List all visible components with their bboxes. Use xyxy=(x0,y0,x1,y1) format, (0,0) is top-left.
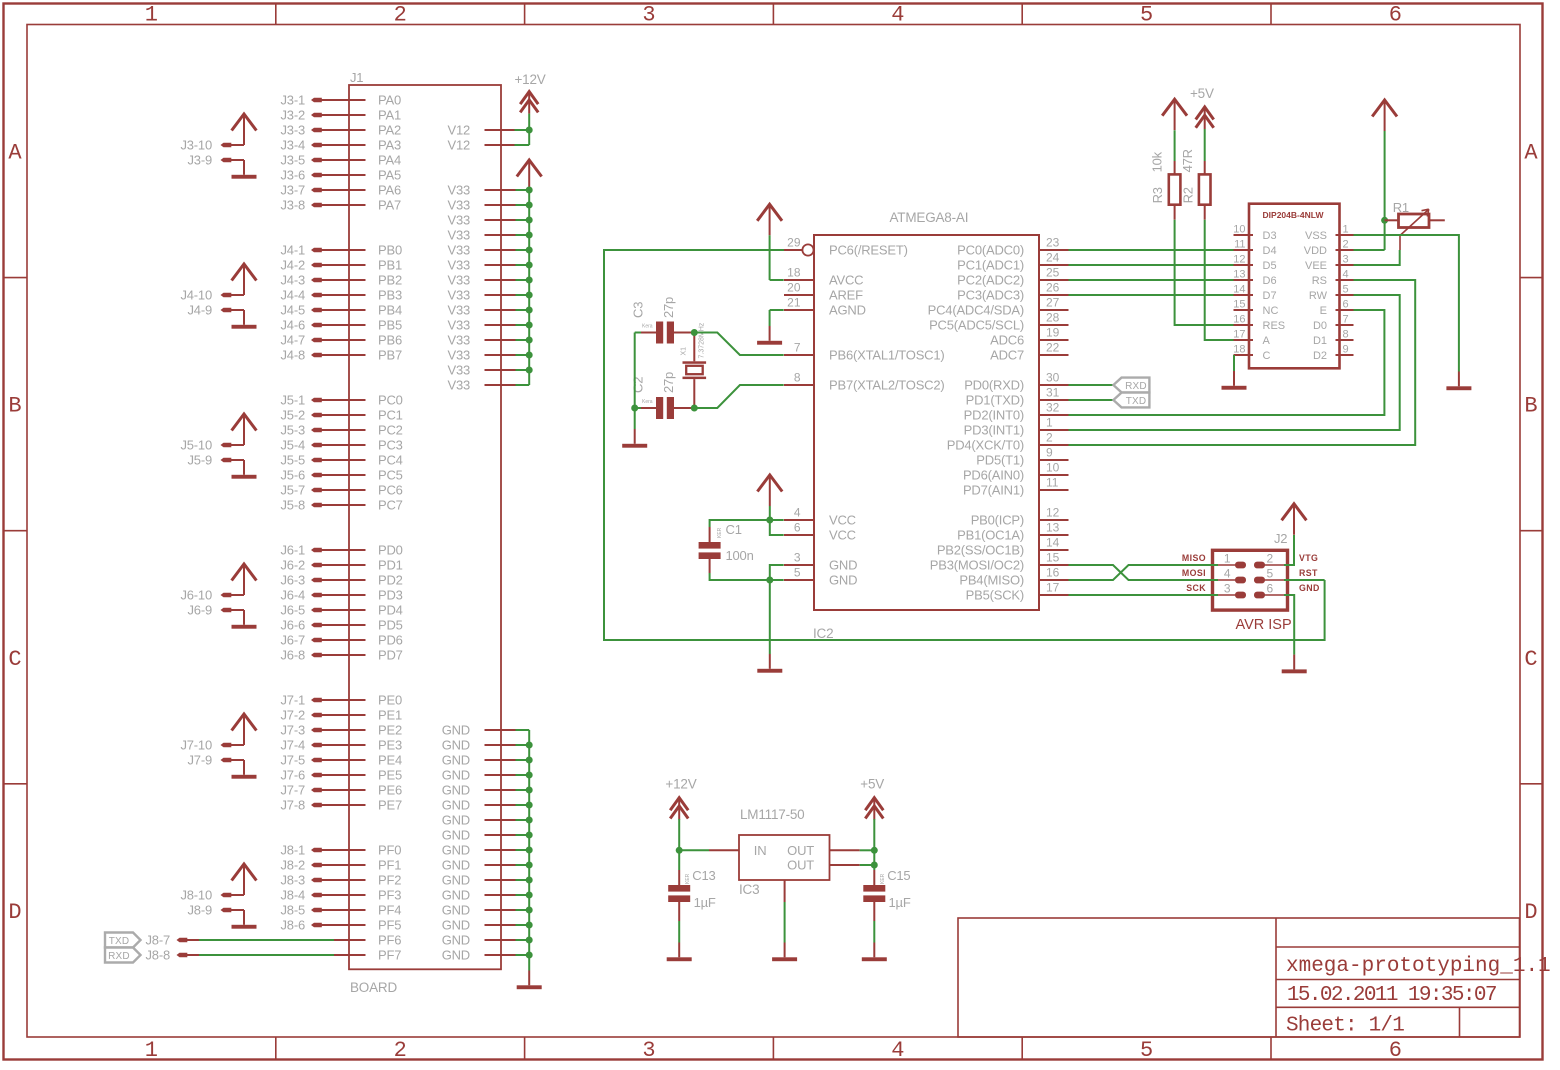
ground symbol at J6 xyxy=(243,610,245,625)
junction V12 xyxy=(526,127,533,134)
svg-text:GND: GND xyxy=(829,558,857,573)
svg-text:VCC: VCC xyxy=(829,513,856,528)
wire +12V to IN xyxy=(678,819,680,850)
svg-text:GND: GND xyxy=(442,903,470,918)
svg-text:PB3(MOSI/OC2): PB3(MOSI/OC2) xyxy=(930,558,1024,573)
svg-text:4: 4 xyxy=(794,506,801,520)
power symbol V33 arrow at J1 xyxy=(517,160,542,177)
wire VSS to ground xyxy=(1354,235,1459,372)
svg-text:GND: GND xyxy=(442,768,470,783)
svg-text:PA5: PA5 xyxy=(378,168,401,183)
wire XTAL1 net xyxy=(694,333,783,356)
IC3 pins xyxy=(709,849,740,851)
wire R2 to A xyxy=(1205,220,1234,340)
svg-text:AGND: AGND xyxy=(829,303,866,318)
svg-text:V33: V33 xyxy=(447,333,470,348)
connector J1 (BOARD) box xyxy=(349,85,501,969)
svg-text:10k: 10k xyxy=(1150,151,1165,172)
svg-text:J5-10: J5-10 xyxy=(180,438,212,453)
svg-text:D3: D3 xyxy=(1263,230,1277,242)
svg-text:GND: GND xyxy=(442,933,470,948)
crystal X1 7.3728MHz xyxy=(683,361,707,364)
svg-text:V33: V33 xyxy=(447,348,470,363)
svg-text:GND: GND xyxy=(442,888,470,903)
svg-text:J3-5: J3-5 xyxy=(281,153,306,168)
svg-text:4: 4 xyxy=(891,3,904,28)
svg-text:IC3: IC3 xyxy=(739,882,759,897)
power symbol V33 arrow at J5 xyxy=(232,414,257,431)
svg-text:47R: 47R xyxy=(1180,149,1195,172)
ground symbol at J7 xyxy=(243,760,245,775)
svg-text:PF7: PF7 xyxy=(378,948,401,963)
junctions V33 xyxy=(526,187,533,194)
svg-text:Kera: Kera xyxy=(642,324,653,330)
svg-text:LM1117-50: LM1117-50 xyxy=(740,807,805,822)
junction crystal bottom xyxy=(691,405,698,412)
wire GND net at C1 xyxy=(710,573,770,580)
svg-text:D4: D4 xyxy=(1263,245,1277,257)
svg-text:5: 5 xyxy=(1343,284,1349,296)
svg-text:J8-4: J8-4 xyxy=(281,888,306,903)
svg-text:1: 1 xyxy=(1224,552,1231,566)
capacitor C1 100n xyxy=(699,542,721,549)
svg-text:D7: D7 xyxy=(1263,290,1277,302)
capacitor C2 27p xyxy=(656,397,663,419)
svg-text:D1: D1 xyxy=(1313,335,1327,347)
wire SCK net xyxy=(1069,594,1219,596)
svg-text:AVCC: AVCC xyxy=(829,273,863,288)
svg-text:J8-2: J8-2 xyxy=(281,858,306,873)
svg-text:V33: V33 xyxy=(447,363,470,378)
junction R1 tap xyxy=(1381,217,1388,224)
svg-text:29: 29 xyxy=(787,236,801,250)
svg-text:32: 32 xyxy=(1046,401,1060,415)
svg-text:5: 5 xyxy=(1140,3,1153,28)
svg-text:PB7: PB7 xyxy=(378,348,402,363)
svg-text:2: 2 xyxy=(1343,239,1349,251)
svg-text:100n: 100n xyxy=(726,548,754,563)
svg-text:PA2: PA2 xyxy=(378,123,401,138)
svg-text:GND: GND xyxy=(442,858,470,873)
wire J2 GND net xyxy=(1284,595,1294,655)
svg-text:AVR ISP: AVR ISP xyxy=(1236,617,1292,633)
svg-text:16: 16 xyxy=(1046,566,1060,580)
svg-text:31: 31 xyxy=(1046,386,1060,400)
svg-text:J7-7: J7-7 xyxy=(281,783,306,798)
svg-text:2: 2 xyxy=(394,3,407,28)
svg-text:PE6: PE6 xyxy=(378,783,402,798)
svg-text:X1: X1 xyxy=(681,347,688,356)
svg-text:D: D xyxy=(8,900,21,925)
svg-text:J5-6: J5-6 xyxy=(281,468,306,483)
svg-text:J4-10: J4-10 xyxy=(180,288,212,303)
svg-text:PD6(AIN0): PD6(AIN0) xyxy=(963,468,1024,483)
svg-text:BOARD: BOARD xyxy=(350,980,397,995)
svg-text:V33: V33 xyxy=(447,258,470,273)
svg-text:PA6: PA6 xyxy=(378,183,401,198)
svg-text:PF1: PF1 xyxy=(378,858,401,873)
svg-text:PB3: PB3 xyxy=(378,288,402,303)
svg-text:1: 1 xyxy=(145,1038,158,1063)
J2 pads and numbers xyxy=(1216,564,1236,566)
svg-text:15: 15 xyxy=(1233,299,1245,311)
svg-text:Kera: Kera xyxy=(642,399,653,405)
svg-text:PF6: PF6 xyxy=(378,933,401,948)
svg-text:J6-7: J6-7 xyxy=(281,633,306,648)
wire MOSI net with crossover xyxy=(1069,565,1219,580)
net flag TXD xyxy=(1113,393,1149,408)
svg-text:PC7: PC7 xyxy=(378,498,403,513)
svg-text:VEE: VEE xyxy=(1305,260,1327,272)
svg-text:J4-6: J4-6 xyxy=(281,318,306,333)
svg-text:J4-1: J4-1 xyxy=(281,243,306,258)
svg-text:J7-2: J7-2 xyxy=(281,708,306,723)
ground symbol below J1 xyxy=(528,971,530,986)
svg-text:R3: R3 xyxy=(1150,187,1165,203)
svg-text:KER: KER xyxy=(880,873,886,884)
power symbol V33 arrow at J3 xyxy=(232,114,257,131)
ground symbol C15 xyxy=(873,943,875,958)
svg-text:GND: GND xyxy=(442,873,470,888)
wire IC3 GND pin to ground xyxy=(784,902,786,943)
svg-text:C2: C2 xyxy=(631,377,646,393)
svg-text:PD4(XCK/T0): PD4(XCK/T0) xyxy=(947,438,1024,453)
svg-text:J6-1: J6-1 xyxy=(281,543,306,558)
svg-text:6: 6 xyxy=(1389,1038,1402,1063)
svg-text:J5-4: J5-4 xyxy=(281,438,306,453)
svg-text:PD7: PD7 xyxy=(378,648,403,663)
svg-text:PD4: PD4 xyxy=(378,603,403,618)
svg-text:J1: J1 xyxy=(350,70,363,85)
svg-text:17: 17 xyxy=(1233,329,1245,341)
svg-text:C13: C13 xyxy=(692,868,715,883)
svg-text:VSS: VSS xyxy=(1305,230,1327,242)
svg-text:D: D xyxy=(1524,900,1537,925)
wire PD3 to RW xyxy=(1069,295,1400,430)
svg-text:C15: C15 xyxy=(887,868,910,883)
junction crystal top xyxy=(691,329,698,336)
svg-text:J6-8: J6-8 xyxy=(281,648,306,663)
svg-text:7: 7 xyxy=(1343,314,1349,326)
svg-text:V33: V33 xyxy=(447,378,470,393)
svg-text:+5V: +5V xyxy=(1190,86,1214,101)
svg-text:+12V: +12V xyxy=(665,777,696,792)
svg-text:B: B xyxy=(1524,394,1537,419)
svg-text:11: 11 xyxy=(1234,239,1245,251)
svg-text:3: 3 xyxy=(794,551,801,565)
svg-text:J7-10: J7-10 xyxy=(180,738,212,753)
LCD module U-LCD DIP204B-4NLW box xyxy=(1249,204,1340,369)
svg-text:22: 22 xyxy=(1046,341,1060,355)
ground symbol at J3 xyxy=(243,160,245,175)
svg-text:25: 25 xyxy=(1046,266,1060,280)
svg-text:ADC7: ADC7 xyxy=(990,348,1024,363)
svg-text:ATMEGA8-AI: ATMEGA8-AI xyxy=(890,210,969,225)
svg-text:VCC: VCC xyxy=(829,528,856,543)
svg-text:PB5: PB5 xyxy=(378,318,402,333)
svg-text:V33: V33 xyxy=(447,318,470,333)
svg-text:PB6: PB6 xyxy=(378,333,402,348)
svg-text:PB2: PB2 xyxy=(378,273,402,288)
svg-text:PD6: PD6 xyxy=(378,633,403,648)
svg-text:5: 5 xyxy=(1140,1038,1153,1063)
svg-text:18: 18 xyxy=(787,266,801,280)
svg-text:J4-5: J4-5 xyxy=(281,303,306,318)
svg-text:PB0: PB0 xyxy=(378,243,402,258)
wire AGND net xyxy=(770,309,784,311)
svg-text:PE4: PE4 xyxy=(378,753,402,768)
wire RESET net xyxy=(604,250,1325,640)
svg-text:13: 13 xyxy=(1233,269,1245,281)
LCD right pins xyxy=(1336,234,1354,236)
svg-text:J7-1: J7-1 xyxy=(281,693,306,708)
svg-text:B: B xyxy=(8,394,21,419)
junction OUT2 xyxy=(871,862,878,869)
svg-text:15.02.2011 19:35:07: 15.02.2011 19:35:07 xyxy=(1287,984,1496,1007)
resistor R3 10k xyxy=(1174,130,1176,161)
svg-text:PE5: PE5 xyxy=(378,768,402,783)
wire GND net at J1 xyxy=(528,730,530,971)
svg-text:D6: D6 xyxy=(1263,275,1277,287)
J1 right pins V12 V33 GND xyxy=(485,129,516,131)
svg-text:21: 21 xyxy=(787,296,801,310)
svg-text:PD0(RXD): PD0(RXD) xyxy=(964,378,1024,393)
svg-text:PB7(XTAL2/TOSC2): PB7(XTAL2/TOSC2) xyxy=(829,378,945,393)
power symbol V33 arrow at J8 xyxy=(232,864,257,881)
IC IC3 LM1117-50 box xyxy=(739,835,830,880)
svg-text:2: 2 xyxy=(1046,431,1053,445)
IC IC2 ATMEGA8-AI box xyxy=(814,235,1039,610)
svg-text:PD3: PD3 xyxy=(378,588,403,603)
svg-text:IN: IN xyxy=(754,843,767,858)
svg-text:PC2: PC2 xyxy=(378,423,403,438)
svg-text:J4-7: J4-7 xyxy=(281,333,306,348)
svg-text:PB1(OC1A): PB1(OC1A) xyxy=(957,528,1024,543)
svg-text:PD1: PD1 xyxy=(378,558,403,573)
ground symbol at J5 xyxy=(243,460,245,475)
svg-text:J5-8: J5-8 xyxy=(281,498,306,513)
resistor R2 47R xyxy=(1204,129,1206,161)
svg-text:10: 10 xyxy=(1233,224,1245,236)
svg-text:J6-2: J6-2 xyxy=(281,558,306,573)
svg-text:PC1: PC1 xyxy=(378,408,403,423)
svg-text:J3-10: J3-10 xyxy=(180,138,212,153)
svg-text:GND: GND xyxy=(442,828,470,843)
svg-text:OUT: OUT xyxy=(787,858,814,873)
svg-text:GND: GND xyxy=(442,753,470,768)
svg-text:J5-9: J5-9 xyxy=(188,453,213,468)
svg-text:2: 2 xyxy=(394,1038,407,1063)
svg-text:V33: V33 xyxy=(447,183,470,198)
wire TXD net to PF6 xyxy=(199,939,334,941)
svg-text:PC0: PC0 xyxy=(378,393,403,408)
svg-text:4: 4 xyxy=(1343,269,1349,281)
junctions GND column xyxy=(526,742,533,749)
svg-text:4: 4 xyxy=(1224,567,1231,581)
power symbol VCC arrow above R3 xyxy=(1162,99,1187,116)
svg-text:J7-6: J7-6 xyxy=(281,768,306,783)
connector J2 AVR ISP box xyxy=(1213,550,1288,610)
svg-text:PC3(ADC3): PC3(ADC3) xyxy=(957,288,1024,303)
wire PC3 to D7 xyxy=(1069,294,1234,296)
svg-text:PE3: PE3 xyxy=(378,738,402,753)
svg-text:J3-3: J3-3 xyxy=(281,123,306,138)
ground symbol J2 xyxy=(1293,655,1295,670)
svg-text:PE0: PE0 xyxy=(378,693,402,708)
svg-text:V12: V12 xyxy=(447,138,470,153)
svg-text:9: 9 xyxy=(1046,446,1053,460)
svg-text:J3-2: J3-2 xyxy=(281,108,306,123)
svg-text:J6-4: J6-4 xyxy=(281,588,306,603)
power symbol VCC arrow above IC2 xyxy=(757,204,782,221)
svg-text:3: 3 xyxy=(1224,582,1231,596)
power symbol VCC arrow at C1 xyxy=(757,475,782,492)
wire PC1 to D5 xyxy=(1069,264,1234,266)
ground symbol VSS xyxy=(1458,372,1460,387)
svg-text:RES: RES xyxy=(1263,320,1286,332)
net flag RXD xyxy=(1113,378,1149,393)
svg-text:12: 12 xyxy=(1046,506,1060,520)
svg-text:PC1(ADC1): PC1(ADC1) xyxy=(957,258,1024,273)
svg-text:PC3: PC3 xyxy=(378,438,403,453)
svg-text:J7-3: J7-3 xyxy=(281,723,306,738)
svg-text:J8-5: J8-5 xyxy=(281,903,306,918)
wire RXD net at IC2 xyxy=(1069,384,1114,386)
svg-text:10: 10 xyxy=(1046,461,1060,475)
svg-text:J6-10: J6-10 xyxy=(180,588,212,603)
svg-text:J8-10: J8-10 xyxy=(180,888,212,903)
svg-text:J4-9: J4-9 xyxy=(188,303,213,318)
svg-text:NC: NC xyxy=(1263,305,1279,317)
svg-text:J3-9: J3-9 xyxy=(188,153,213,168)
svg-text:9: 9 xyxy=(1343,344,1349,356)
net flag TXD at J8-7 xyxy=(105,933,141,948)
svg-text:PA1: PA1 xyxy=(378,108,401,123)
svg-text:PB4: PB4 xyxy=(378,303,402,318)
title block xyxy=(958,918,1520,1037)
svg-text:14: 14 xyxy=(1233,284,1245,296)
svg-text:PC0(ADC0): PC0(ADC0) xyxy=(957,243,1024,258)
svg-text:C1: C1 xyxy=(726,522,742,537)
wire PC0 to D4 xyxy=(1069,249,1234,251)
wire R1 wiper to VEE xyxy=(1399,236,1401,251)
svg-text:TXD: TXD xyxy=(1126,396,1147,407)
svg-text:GND: GND xyxy=(442,738,470,753)
wire LCD C pin to ground xyxy=(1233,355,1235,371)
svg-text:TXD: TXD xyxy=(109,936,130,947)
wire R3 to RES xyxy=(1175,220,1234,325)
svg-text:1: 1 xyxy=(145,3,158,28)
svg-text:14: 14 xyxy=(1046,536,1060,550)
svg-text:27: 27 xyxy=(1046,296,1060,310)
svg-text:OUT: OUT xyxy=(787,843,814,858)
svg-text:PD1(TXD): PD1(TXD) xyxy=(966,393,1024,408)
svg-text:GND: GND xyxy=(442,918,470,933)
svg-text:V33: V33 xyxy=(447,228,470,243)
svg-text:J4-4: J4-4 xyxy=(281,288,306,303)
svg-text:PC4(ADC4/SDA): PC4(ADC4/SDA) xyxy=(928,303,1024,318)
svg-text:16: 16 xyxy=(1233,314,1245,326)
svg-text:MISO: MISO xyxy=(1182,553,1206,563)
svg-text:GND: GND xyxy=(829,573,857,588)
svg-text:PB0(ICP): PB0(ICP) xyxy=(971,513,1024,528)
svg-text:V33: V33 xyxy=(447,288,470,303)
svg-text:30: 30 xyxy=(1046,371,1060,385)
svg-text:PE1: PE1 xyxy=(378,708,402,723)
svg-text:V33: V33 xyxy=(447,213,470,228)
svg-text:23: 23 xyxy=(1046,236,1060,250)
wire PC2 to D6 xyxy=(1069,279,1234,281)
svg-text:J8-8: J8-8 xyxy=(146,948,171,963)
svg-text:11: 11 xyxy=(1046,476,1059,490)
svg-text:SCK: SCK xyxy=(1186,583,1206,593)
svg-text:J8-9: J8-9 xyxy=(188,903,213,918)
wire V12 net xyxy=(528,114,530,130)
svg-text:20: 20 xyxy=(787,281,801,295)
capacitor C15 1uF xyxy=(873,870,875,885)
wire PD4 to RS xyxy=(1069,280,1416,445)
svg-text:PA3: PA3 xyxy=(378,138,401,153)
wire MISO net with crossover xyxy=(1069,565,1219,580)
svg-text:2: 2 xyxy=(1267,552,1274,566)
svg-text:27p: 27p xyxy=(661,372,676,393)
svg-text:PB1: PB1 xyxy=(378,258,402,273)
svg-text:PF4: PF4 xyxy=(378,903,401,918)
svg-text:3: 3 xyxy=(1343,254,1349,266)
svg-text:PD7(AIN1): PD7(AIN1) xyxy=(963,483,1024,498)
svg-text:J6-3: J6-3 xyxy=(281,573,306,588)
svg-text:3: 3 xyxy=(642,3,655,28)
svg-text:J5-3: J5-3 xyxy=(281,423,306,438)
ground symbol crystal xyxy=(634,429,636,444)
svg-text:6: 6 xyxy=(1389,3,1402,28)
svg-text:KER: KER xyxy=(685,873,691,884)
svg-text:18: 18 xyxy=(1233,344,1245,356)
junction cap ground xyxy=(631,405,638,412)
svg-text:PD2: PD2 xyxy=(378,573,403,588)
svg-text:PD3(INT1): PD3(INT1) xyxy=(964,423,1024,438)
svg-text:VTG: VTG xyxy=(1299,553,1318,563)
svg-text:KER: KER xyxy=(717,527,723,538)
svg-text:PD5: PD5 xyxy=(378,618,403,633)
ground symbol below IC2 xyxy=(769,654,771,669)
svg-text:6: 6 xyxy=(794,521,801,535)
svg-text:PC6(/RESET): PC6(/RESET) xyxy=(829,243,908,258)
svg-text:C: C xyxy=(1524,647,1537,672)
svg-text:1µF: 1µF xyxy=(889,895,911,910)
svg-text:PC4: PC4 xyxy=(378,453,403,468)
svg-text:J8-6: J8-6 xyxy=(281,918,306,933)
svg-text:J6-9: J6-9 xyxy=(188,603,213,618)
svg-text:PA4: PA4 xyxy=(378,153,401,168)
svg-text:J4-8: J4-8 xyxy=(281,348,306,363)
svg-text:+5V: +5V xyxy=(860,777,884,792)
capacitor C3 27p xyxy=(656,322,663,344)
svg-text:GND: GND xyxy=(442,813,470,828)
wire V33 net vertical xyxy=(528,190,530,385)
wire XTAL2 net xyxy=(694,385,783,408)
svg-text:J4-2: J4-2 xyxy=(281,258,306,273)
svg-text:1: 1 xyxy=(1343,224,1349,236)
svg-text:27p: 27p xyxy=(661,297,676,318)
svg-text:MOSI: MOSI xyxy=(1182,568,1206,578)
wire VCC net at C1 xyxy=(769,506,771,520)
svg-text:13: 13 xyxy=(1046,521,1060,535)
svg-text:GND: GND xyxy=(442,843,470,858)
svg-text:R2: R2 xyxy=(1181,187,1196,203)
svg-text:ADC6: ADC6 xyxy=(990,333,1024,348)
capacitor C13 1uF xyxy=(678,850,680,870)
